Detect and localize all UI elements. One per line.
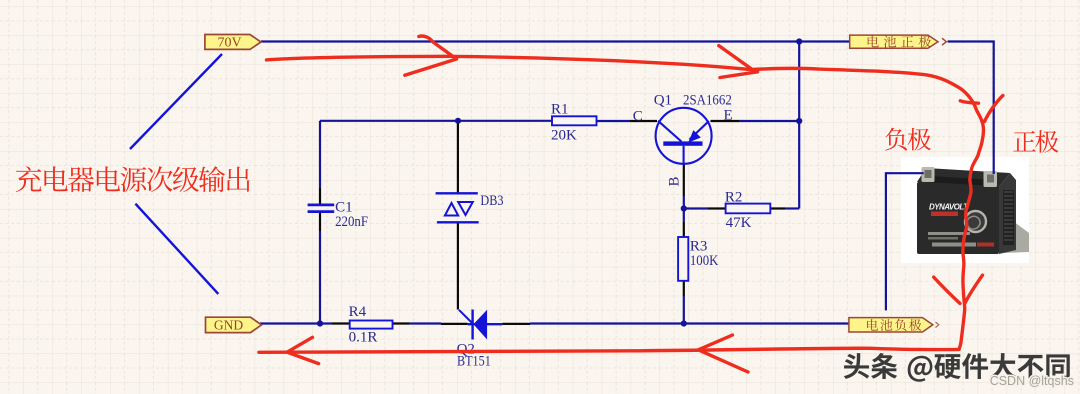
svg-text:C: C [633, 109, 643, 125]
battery photo [901, 157, 1029, 263]
battery terminal negative [922, 167, 935, 182]
red curve: wire to battery positive [751, 68, 984, 349]
red branch V right prong [965, 275, 982, 303]
junction emitter / right rail [796, 118, 802, 124]
wire: Q2 to bottom rail [530, 322, 849, 324]
pin: R3 top/bottom (black) [683, 222, 685, 296]
red bottom return line [259, 348, 959, 352]
red branch tick near battery top [960, 101, 978, 103]
red arrowhead on bottom line (left) [287, 337, 319, 363]
callout line from red annotation to GND port [135, 204, 218, 294]
svg-text:220nF: 220nF [335, 214, 368, 230]
svg-text:GND: GND [214, 318, 243, 333]
resistor R3 [678, 237, 688, 281]
wire: Q1 emitter to right rail [739, 120, 799, 122]
svg-text:2SA1662: 2SA1662 [683, 93, 732, 109]
svg-text:20K: 20K [551, 128, 577, 144]
junction C1 / bottom rail [317, 320, 323, 326]
svg-text:CSDN @ltqshs: CSDN @ltqshs [990, 374, 1074, 388]
wire: R3 to bottom rail [683, 296, 685, 324]
thyristor Q2 (BT151) [459, 310, 502, 340]
resistor R1 [552, 116, 597, 125]
red text 正极 [1013, 131, 1036, 152]
battery emblem [965, 211, 986, 232]
pin: Q1 base (black) [683, 164, 685, 196]
svg-text:R1: R1 [551, 102, 569, 118]
resistor R4 [350, 321, 393, 329]
battery terminal positive [984, 171, 998, 187]
red arrowhead 2 on top path [719, 46, 758, 78]
wire: R2 to right rail [785, 207, 799, 209]
wire: GND to R4 [260, 322, 332, 324]
wire: battery negative lead [886, 173, 924, 310]
wire: right vertical rail [798, 42, 800, 209]
capacitor C1 [308, 205, 335, 212]
red annotation text 充电器电源次级输出 [16, 166, 250, 192]
diac DB3 [436, 193, 479, 222]
pin: Q1 collector (black) [630, 120, 657, 122]
pin: Q2 anode (black) [502, 323, 530, 325]
svg-text:47K: 47K [726, 215, 752, 231]
red branch V below battery [934, 277, 960, 303]
wire: mid rail C1 to R1 [320, 120, 552, 122]
wire: R4 to Q2 [409, 322, 441, 324]
pin: Q2 cathode (black) [441, 323, 468, 325]
red branch up-right [985, 96, 1003, 122]
wire: node to R3 [683, 209, 685, 223]
red text 负极 [885, 128, 907, 151]
watermark CSDN @ltqshs [990, 374, 1074, 388]
svg-text:70V: 70V [217, 35, 241, 50]
resistor R2 [726, 204, 771, 214]
svg-text:DB3: DB3 [480, 193, 503, 209]
svg-text:0.1R: 0.1R [349, 330, 378, 346]
port GND [206, 317, 262, 332]
red arrow: top current path [267, 56, 751, 69]
callout line from 70V port to red annotation [130, 54, 222, 149]
wire: R1 to Q1 collector [597, 120, 631, 122]
pin: DB3 top (black) [457, 122, 459, 193]
junction top rail / right rail [796, 38, 802, 44]
battery small text [928, 232, 970, 235]
svg-text:R2: R2 [725, 190, 743, 206]
svg-text:B: B [667, 176, 683, 186]
svg-text:Q1: Q1 [654, 93, 672, 109]
svg-text:BT151: BT151 [457, 354, 491, 370]
port 电池负极 [849, 318, 933, 332]
junction R3 / bottom rail [681, 320, 687, 326]
port 70V [205, 35, 261, 50]
svg-text:DYNAVOLT: DYNAVOLT [929, 203, 969, 212]
transistor Q1 (PNP 2SA1662) [656, 108, 712, 164]
svg-text:R4: R4 [349, 304, 367, 320]
pin: Q1 emitter (black) [711, 120, 740, 122]
red arrowhead 1 on top path [405, 36, 457, 75]
port 电池正极 [850, 35, 938, 48]
svg-text:100K: 100K [690, 253, 719, 269]
wire: battery positive drop [948, 42, 994, 175]
pin: R4 left/right (black) [332, 322, 409, 324]
wire: base node to R2 [684, 196, 708, 209]
red arrowhead on bottom line (middle) [698, 335, 748, 372]
junction mid rail / DB3 [455, 118, 461, 124]
wire: C1 stem [319, 121, 321, 324]
svg-text:E: E [724, 108, 733, 124]
junction base / R2 / R3 [681, 205, 687, 211]
watermark 头条 @硬件大不同 [844, 353, 1070, 382]
wire: 70V to top rail [261, 40, 850, 42]
pin: DB3 bottom to Q2 gate (black) [457, 223, 459, 310]
pin: R2 left/right (black) [708, 207, 785, 209]
pin: C1 top/bottom (black) [319, 188, 321, 231]
